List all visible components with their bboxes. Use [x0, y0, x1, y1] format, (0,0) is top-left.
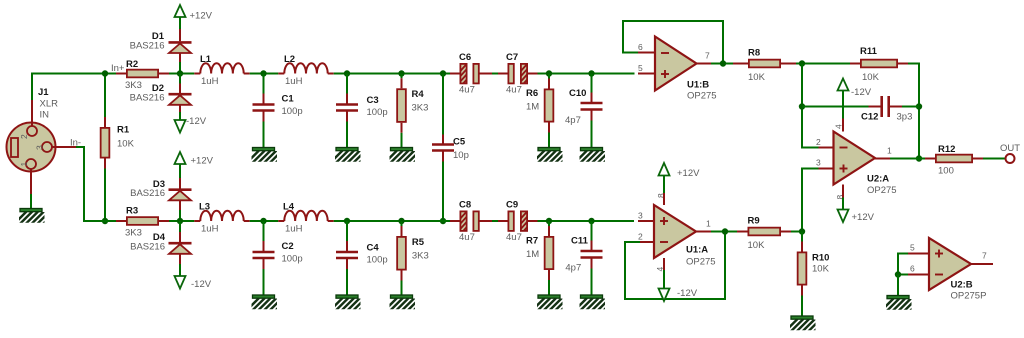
svg-text:L4: L4	[283, 202, 295, 213]
pin L2 right	[328, 73, 334, 75]
wire node to C1	[263, 74, 265, 94]
junction output node	[916, 155, 922, 161]
pin L2 left	[278, 73, 284, 75]
svg-text:XLR: XLR	[40, 99, 59, 110]
svg-text:C9: C9	[506, 200, 518, 211]
pin U2A in+ (3)	[819, 168, 834, 170]
junction R1/In+	[102, 70, 108, 76]
svg-text:U2:B: U2:B	[951, 280, 973, 291]
wire U2B tie to ground	[897, 275, 899, 296]
pin L3 left	[194, 220, 200, 222]
svg-text:BAS216: BAS216	[130, 41, 165, 52]
svg-text:C12: C12	[861, 112, 878, 123]
resistor R1	[101, 128, 110, 158]
pin U2B in- (6)	[908, 274, 929, 276]
junction C12 left	[799, 103, 805, 109]
wire R1 bottom to In-	[104, 169, 106, 222]
svg-text:3K3: 3K3	[412, 103, 429, 114]
diode D1	[169, 42, 192, 53]
junction C10 node	[588, 70, 594, 76]
wire node to C3	[346, 74, 348, 94]
pin R2 right	[159, 73, 169, 75]
svg-text:10K: 10K	[812, 264, 830, 275]
resistor R12	[936, 155, 972, 163]
svg-text:L1: L1	[200, 54, 212, 65]
ground under R10	[783, 316, 827, 334]
svg-text:2: 2	[19, 134, 29, 139]
wire R1 top to In+	[104, 74, 106, 118]
svg-text:-12V: -12V	[186, 116, 207, 127]
capacitor C2	[253, 252, 275, 258]
svg-text:U2:A: U2:A	[867, 174, 889, 185]
wire C5 to bottom rail	[442, 162, 444, 222]
svg-text:OP275P: OP275P	[951, 291, 987, 302]
wire +12V to U1A pin8	[663, 176, 665, 194]
wire D3 to node	[179, 210, 181, 221]
pin C3 bottom	[346, 112, 348, 122]
svg-text:R2: R2	[126, 59, 138, 70]
resistor R5	[397, 237, 406, 270]
pin R6 top	[548, 79, 550, 89]
junction C11 node	[588, 218, 594, 224]
resistor R9	[748, 228, 780, 236]
svg-text:-12V: -12V	[677, 288, 698, 299]
svg-text:+12V: +12V	[852, 212, 875, 223]
svg-text:C3: C3	[367, 95, 379, 106]
junction D1/D2 node	[177, 70, 183, 76]
pin C2 bottom	[263, 259, 265, 269]
wire R4 to ground	[401, 133, 403, 148]
svg-text:3K3: 3K3	[412, 251, 429, 262]
inductor L2	[284, 63, 327, 73]
capacitor C12	[882, 96, 889, 117]
svg-text:OP275: OP275	[686, 257, 716, 268]
pin C6 left	[450, 73, 460, 75]
svg-text:C1: C1	[282, 94, 295, 105]
svg-text:7: 7	[705, 51, 710, 61]
svg-text:C10: C10	[569, 88, 586, 99]
wire node to C4	[346, 221, 348, 241]
inductor L4	[284, 211, 327, 221]
inductor L3	[200, 211, 243, 221]
wire D1 to node	[179, 62, 181, 74]
svg-text:3: 3	[35, 145, 45, 150]
svg-text:C7: C7	[506, 52, 518, 63]
svg-text:-12V: -12V	[191, 279, 212, 290]
pin U2A out (1)	[875, 158, 890, 160]
connector J1 pin 1 circle	[26, 159, 36, 169]
pin R11 left	[850, 63, 860, 65]
pin R10 bottom	[801, 286, 803, 296]
pin U1B out (7)	[697, 63, 712, 65]
pin C2 top	[263, 241, 265, 251]
svg-text:R11: R11	[860, 46, 878, 57]
ground under R6	[530, 148, 574, 166]
resistor R4	[397, 89, 406, 122]
wire L3 to C2 node	[250, 220, 279, 222]
junction C4 node	[344, 218, 350, 224]
pin D2 anode	[179, 105, 181, 112]
pin C11 bottom	[591, 259, 593, 269]
wire +12V to D1	[179, 17, 181, 29]
pin U1A in+ (3)	[638, 220, 654, 222]
wire node to R10	[801, 232, 803, 242]
op-amp U1:A	[654, 205, 696, 258]
op-amp U2:B	[929, 238, 971, 290]
ground under C3	[328, 148, 372, 166]
svg-text:100p: 100p	[282, 254, 303, 265]
svg-text:1uH: 1uH	[285, 224, 303, 235]
ground under U2B	[879, 296, 923, 314]
pin C12 left	[869, 106, 881, 108]
wire R9 to node	[791, 231, 802, 233]
svg-text:1uH: 1uH	[285, 76, 303, 87]
svg-text:4u7: 4u7	[506, 85, 522, 96]
pin R12 left	[925, 158, 935, 160]
pin R4 top	[401, 78, 403, 88]
svg-text:3K3: 3K3	[125, 228, 142, 239]
svg-text:4u7: 4u7	[459, 85, 475, 96]
svg-text:R8: R8	[748, 48, 760, 59]
wire R5 to ground	[401, 281, 403, 296]
resistor R2	[127, 70, 158, 78]
svg-text:U1:B: U1:B	[687, 80, 709, 91]
wire L4 to C8	[334, 220, 450, 222]
pin R9 left	[737, 231, 748, 233]
svg-text:In-: In-	[70, 138, 81, 149]
wire U2A pin8 to +12V	[842, 198, 844, 210]
ground under R4	[382, 148, 426, 166]
wire C7 to R6 node	[538, 73, 635, 75]
pin R7 top	[548, 226, 550, 236]
wire node to D2	[179, 74, 181, 84]
pin R2 left	[116, 73, 126, 75]
pin D1 cathode	[179, 29, 181, 41]
wire R6 to ground	[548, 133, 550, 148]
op-amp U2:A	[834, 132, 876, 185]
pin C3 top	[346, 94, 348, 104]
wire node to R4	[401, 74, 403, 79]
pin R3 left	[116, 220, 126, 222]
diode D2	[169, 94, 192, 105]
svg-text:1: 1	[706, 219, 711, 229]
pin R5 top	[401, 226, 403, 236]
wire R10 to ground	[801, 296, 803, 317]
wire node to R6	[548, 74, 550, 79]
pin C1 top	[263, 94, 265, 104]
svg-text:1uH: 1uH	[201, 76, 219, 87]
pin C10 top	[591, 93, 593, 103]
wire U2B inputs tie	[898, 254, 908, 275]
pin C7 left	[498, 73, 508, 75]
junction D3/D4 node	[177, 218, 183, 224]
svg-text:R7: R7	[526, 236, 538, 247]
wire C2 to ground	[263, 269, 265, 295]
pin C8 right	[480, 220, 493, 222]
wire +12V to D3	[179, 164, 181, 178]
pin U2A in- (2)	[819, 147, 834, 149]
pin U1A out (1)	[696, 231, 711, 233]
junction C1 node	[260, 70, 266, 76]
svg-text:R6: R6	[526, 88, 538, 99]
pin C12 right	[890, 106, 902, 108]
pin C7 right	[528, 73, 538, 75]
inductor L1	[200, 63, 243, 73]
wire C9 to U1A pin3	[538, 220, 635, 222]
junction C5 bottom node	[440, 218, 446, 224]
capacitor C4	[336, 252, 358, 258]
svg-text:C4: C4	[367, 243, 380, 254]
wire U1A out to R9	[711, 231, 737, 233]
power -12V above U2A	[838, 79, 872, 99]
junction R1/In-	[102, 218, 108, 224]
pin C5 top	[442, 135, 444, 144]
wire U2A out to R12	[890, 158, 925, 160]
pin R8 left	[733, 63, 748, 65]
capacitor C8	[460, 211, 479, 240]
wire C1 to ground	[263, 122, 265, 148]
svg-text:OP275: OP275	[867, 185, 897, 196]
wire R8 to R11	[796, 63, 850, 65]
junction R6 node	[546, 70, 552, 76]
svg-text:1M: 1M	[526, 102, 539, 113]
ground under R7	[530, 295, 574, 313]
connector J1 pin 2 circle	[27, 126, 37, 136]
pin R1 bottom	[104, 159, 106, 169]
pin R6 bottom	[548, 123, 550, 133]
capacitor C1	[253, 105, 275, 111]
pin L4 right	[328, 220, 334, 222]
pin D3 cathode	[179, 178, 181, 189]
power -12V below D2	[175, 116, 207, 133]
capacitor C7	[508, 64, 527, 93]
wire node to R7	[548, 221, 550, 226]
wire C8 to C9	[492, 220, 498, 222]
power +12V below U2A	[838, 210, 875, 224]
capacitor C6	[460, 64, 479, 93]
svg-text:U1:A: U1:A	[686, 245, 708, 256]
wire C4 to ground	[346, 269, 348, 295]
svg-text:+12V: +12V	[190, 11, 213, 22]
wire R3 to D3/D4 node	[169, 220, 194, 222]
wire node to C2	[263, 221, 265, 241]
pin C1 bottom	[263, 112, 265, 122]
svg-text:3: 3	[638, 211, 643, 221]
junction U2B tie	[895, 271, 901, 277]
pin C9 left	[498, 220, 508, 222]
pin R12 right	[973, 158, 983, 160]
wire to C12 left plate	[802, 106, 869, 108]
junction R7 node	[546, 218, 552, 224]
ground under C11	[572, 295, 616, 313]
svg-text:OP275: OP275	[687, 91, 717, 102]
svg-text:10K: 10K	[748, 240, 766, 251]
wire U1A feedback loop	[625, 232, 725, 300]
capacitor C11	[581, 251, 603, 258]
pin C11 top	[591, 241, 593, 251]
pin L3 right	[244, 220, 250, 222]
svg-text:C8: C8	[459, 200, 471, 211]
wire D4 to -12V	[179, 264, 181, 276]
svg-text:4u7: 4u7	[459, 232, 475, 243]
capacitor C9	[508, 211, 527, 240]
svg-text:2: 2	[638, 232, 643, 242]
diode D4	[169, 243, 192, 254]
ground under C1	[244, 148, 288, 166]
connector J1 cable latch	[11, 138, 18, 157]
pin R4 bottom	[401, 123, 403, 133]
wire U1B feedback loop	[623, 21, 723, 64]
pin C8 left	[450, 220, 460, 222]
pin D1 anode	[179, 53, 181, 62]
svg-text:R12: R12	[938, 144, 955, 155]
svg-text:R3: R3	[126, 206, 138, 217]
wire J1 pin1 to ground	[30, 194, 32, 209]
svg-text:2: 2	[816, 137, 821, 147]
pin R1 top	[104, 117, 106, 127]
svg-text:6: 6	[638, 42, 643, 52]
pin U2B out (7)	[971, 263, 993, 265]
svg-text:1: 1	[887, 146, 892, 156]
pin J1.3	[52, 146, 76, 148]
resistor R11	[861, 60, 897, 68]
wire R7 to ground	[548, 280, 550, 295]
pin U2B in+ (5)	[908, 253, 929, 255]
output terminal OUT	[1006, 154, 1015, 163]
pin U1B in+ (5)	[638, 73, 655, 75]
wire L2 to C6	[334, 73, 450, 75]
wire C3 to ground	[346, 122, 348, 148]
svg-text:-12V: -12V	[851, 87, 872, 98]
junction C3 node	[344, 70, 350, 76]
pin R11 right	[898, 63, 908, 65]
svg-text:R9: R9	[748, 216, 760, 227]
wire R2 to D1/D2 node	[169, 73, 194, 75]
svg-text:100p: 100p	[367, 255, 388, 266]
svg-text:10K: 10K	[117, 139, 135, 150]
resistor R3	[127, 217, 158, 225]
junction U1A output	[722, 228, 728, 234]
wire U2A pin3 net	[802, 169, 819, 232]
junction U1B output	[720, 60, 726, 66]
svg-text:R1: R1	[117, 125, 130, 136]
svg-text:IN: IN	[40, 110, 50, 121]
svg-text:BAS216: BAS216	[130, 93, 165, 104]
pin U1A V+ (8)	[663, 193, 665, 205]
junction R9/R10 node	[799, 228, 805, 234]
junction R5 node	[398, 218, 404, 224]
wire In+ net	[32, 74, 116, 101]
resistor R10	[798, 252, 807, 284]
junction C2 node	[260, 218, 266, 224]
wire node to R5	[401, 221, 403, 226]
svg-text:100: 100	[938, 166, 954, 177]
pin R3 right	[159, 220, 169, 222]
resistor R6	[545, 89, 554, 121]
ground under C2	[244, 295, 288, 313]
svg-text:+12V: +12V	[191, 156, 214, 167]
pin D2 cathode	[179, 84, 181, 94]
pin L1 right	[244, 73, 250, 75]
pin U1A V- (4)	[663, 258, 665, 270]
wire node to C10	[591, 74, 593, 93]
svg-text:4p7: 4p7	[565, 263, 581, 274]
wire D2 to -12V	[179, 112, 181, 120]
svg-text:BAS216: BAS216	[130, 188, 165, 199]
svg-text:7: 7	[982, 251, 987, 261]
svg-text:100p: 100p	[282, 106, 303, 117]
pin C5 bottom	[442, 152, 444, 162]
wire In- net	[76, 147, 116, 221]
svg-text:+12V: +12V	[677, 168, 700, 179]
pin D4 anode	[179, 254, 181, 264]
wire C10 to ground	[591, 121, 593, 148]
pin D3 anode	[179, 200, 181, 210]
ground under J1	[12, 209, 56, 227]
pin C9 right	[528, 220, 538, 222]
pin C4 top	[346, 241, 348, 251]
svg-text:4u7: 4u7	[506, 232, 522, 243]
capacitor C3	[336, 105, 358, 111]
pin J1.1	[30, 169, 32, 194]
pin U2A V+ (8)	[842, 185, 844, 198]
pin J1.2	[31, 100, 33, 126]
wire L1 to C1 node	[250, 73, 279, 75]
ground under C10	[572, 148, 616, 166]
wire -12V to U2A pin4	[842, 91, 844, 119]
svg-text:C6: C6	[459, 52, 471, 63]
pin R10 top	[801, 242, 803, 252]
power +12V above U1A	[659, 163, 701, 179]
wire C6 to C7	[492, 73, 498, 75]
power -12V below U1A	[659, 288, 698, 301]
svg-text:R4: R4	[412, 89, 425, 100]
pin L1 left	[194, 73, 200, 75]
svg-text:1M: 1M	[526, 249, 539, 260]
wire R11 to output column	[908, 64, 919, 159]
svg-text:J1: J1	[38, 87, 49, 98]
junction C12 right	[916, 103, 922, 109]
capacitor C10	[581, 103, 603, 110]
svg-text:R10: R10	[812, 253, 829, 264]
connector J1 XLR body	[7, 123, 56, 172]
svg-text:100p: 100p	[367, 107, 388, 118]
svg-text:5: 5	[638, 63, 643, 73]
svg-text:BAS216: BAS216	[130, 242, 165, 253]
pin C4 bottom	[346, 259, 348, 269]
power +12V above D1	[175, 5, 213, 22]
svg-text:10K: 10K	[862, 72, 880, 83]
op-amp U1:B	[655, 37, 697, 91]
wire U1A pin4 to -12V	[663, 270, 665, 289]
power -12V below D4	[175, 276, 212, 290]
power +12V above D3	[175, 152, 214, 167]
svg-text:3p3: 3p3	[897, 112, 913, 123]
capacitor C5	[432, 145, 454, 151]
svg-text:6: 6	[910, 264, 915, 274]
svg-text:In+: In+	[111, 63, 125, 74]
wire top rail to C5	[442, 74, 444, 135]
junction R4 node	[398, 70, 404, 76]
svg-text:L3: L3	[199, 202, 210, 213]
junction C5 top node	[440, 70, 446, 76]
svg-text:4p7: 4p7	[565, 115, 581, 126]
connector J1 pin 3 circle	[42, 142, 52, 152]
pin R7 bottom	[548, 270, 550, 280]
pin U1B in- (6)	[638, 52, 655, 54]
wire node to D4	[179, 221, 181, 232]
svg-text:10p: 10p	[453, 150, 469, 161]
